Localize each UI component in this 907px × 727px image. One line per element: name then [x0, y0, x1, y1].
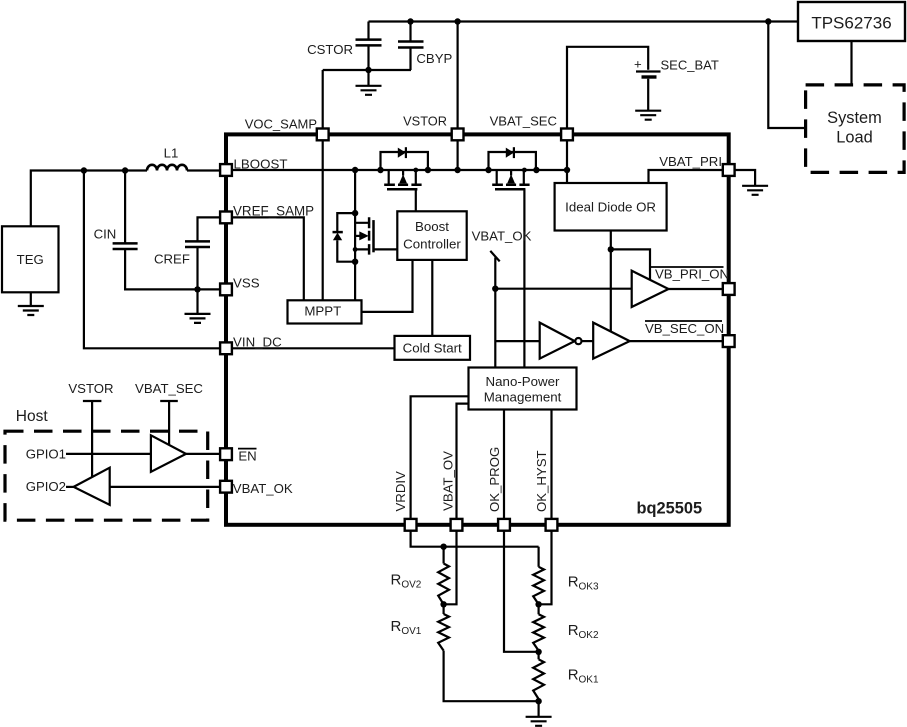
svg-text:Boost: Boost	[415, 219, 449, 234]
svg-text:OK_HYST: OK_HYST	[534, 450, 549, 512]
svg-text:TPS62736: TPS62736	[811, 14, 891, 33]
svg-text:VREF_SAMP: VREF_SAMP	[233, 204, 314, 219]
svg-text:VBAT_SEC: VBAT_SEC	[135, 381, 203, 396]
svg-text:+: +	[634, 57, 642, 72]
svg-text:VRDIV: VRDIV	[393, 471, 408, 512]
svg-text:GPIO2: GPIO2	[26, 479, 66, 494]
svg-text:Load: Load	[836, 128, 872, 146]
svg-text:System: System	[827, 109, 882, 127]
svg-text:OK_PROG: OK_PROG	[487, 447, 502, 512]
svg-text:LBOOST: LBOOST	[234, 156, 288, 171]
svg-text:Ideal Diode OR: Ideal Diode OR	[565, 199, 656, 214]
svg-text:VBAT_SEC: VBAT_SEC	[490, 114, 557, 129]
svg-text:CIN: CIN	[94, 227, 117, 242]
svg-text:EN: EN	[238, 448, 256, 463]
svg-text:CBYP: CBYP	[416, 51, 452, 66]
svg-text:Management: Management	[484, 390, 562, 405]
svg-text:GPIO1: GPIO1	[26, 447, 66, 462]
svg-text:Host: Host	[16, 408, 49, 425]
svg-text:VB_PRI_ON: VB_PRI_ON	[655, 267, 729, 282]
svg-text:Nano-Power: Nano-Power	[486, 374, 560, 389]
svg-text:VBAT_OK: VBAT_OK	[233, 481, 293, 496]
svg-text:VBAT_PRI: VBAT_PRI	[659, 154, 722, 169]
svg-text:VIN_DC: VIN_DC	[233, 334, 282, 349]
svg-text:SEC_BAT: SEC_BAT	[661, 58, 719, 73]
svg-text:VB_SEC_ON: VB_SEC_ON	[645, 321, 724, 336]
svg-text:MPPT: MPPT	[304, 304, 341, 319]
svg-text:Controller: Controller	[403, 237, 461, 252]
svg-text:CSTOR: CSTOR	[307, 42, 353, 57]
svg-text:Cold Start: Cold Start	[403, 340, 462, 355]
svg-text:VSTOR: VSTOR	[403, 114, 447, 129]
svg-text:VSS: VSS	[233, 276, 260, 291]
svg-text:L1: L1	[164, 146, 179, 161]
svg-text:VBAT_OK: VBAT_OK	[472, 228, 532, 243]
svg-text:VBAT_OV: VBAT_OV	[441, 451, 456, 511]
svg-text:TEG: TEG	[17, 252, 44, 267]
svg-text:bq25505: bq25505	[637, 500, 703, 518]
svg-text:VSTOR: VSTOR	[68, 381, 113, 396]
svg-text:CREF: CREF	[154, 252, 190, 267]
svg-text:VOC_SAMP: VOC_SAMP	[245, 116, 317, 131]
